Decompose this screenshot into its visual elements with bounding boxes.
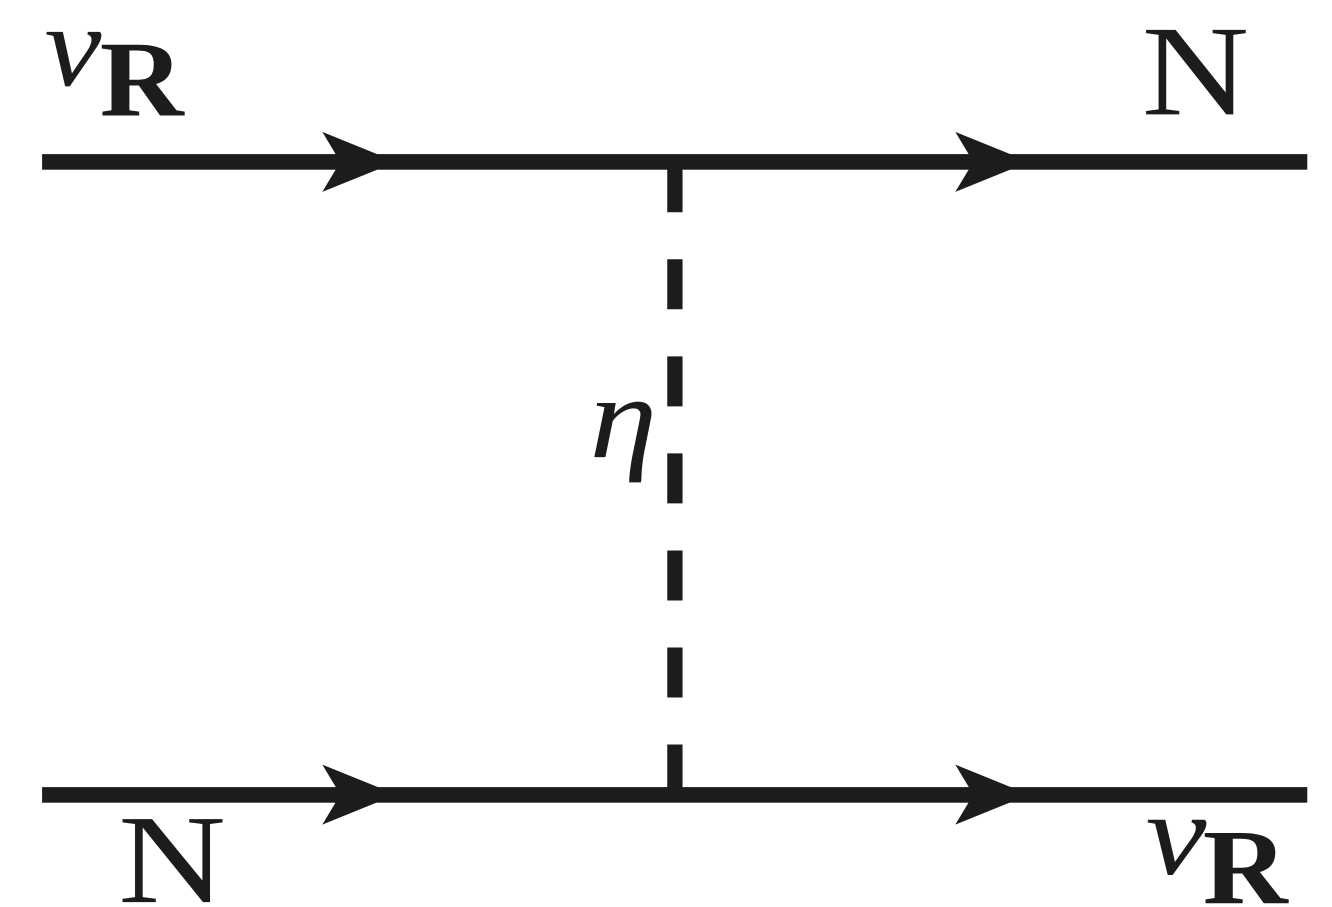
arrow top-left	[322, 132, 396, 192]
svg-text:N: N	[1142, 0, 1249, 143]
fermion line top (nu_R -> N)	[42, 154, 1307, 170]
label nu (top-left nu_R)	[45, 0, 103, 111]
svg-text:ν: ν	[1146, 769, 1207, 900]
svg-text:N: N	[118, 790, 226, 907]
label N (bottom-left)	[118, 790, 226, 907]
arrow top-right	[955, 132, 1029, 192]
arrow bottom-right	[955, 765, 1029, 825]
scalar propagator eta (dashed)	[667, 162, 682, 794]
label eta (propagator)	[589, 352, 657, 483]
label N (top-right)	[1142, 0, 1249, 143]
label R subscript (bottom-right nu_R)	[1203, 808, 1290, 907]
fermion line bottom (N -> nu_R)	[42, 787, 1307, 803]
arrow bottom-left	[322, 765, 396, 825]
label R subscript (top-left nu_R)	[100, 20, 186, 139]
svg-text:R: R	[1203, 808, 1290, 907]
svg-text:ν: ν	[45, 0, 103, 111]
label nu (bottom-right nu_R)	[1146, 769, 1207, 900]
svg-text:R: R	[100, 20, 186, 139]
svg-text:η: η	[589, 352, 657, 483]
